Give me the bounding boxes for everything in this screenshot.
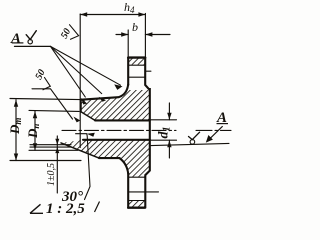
- weld symbol right: circle + check: [190, 140, 195, 145]
- short line near centerline (weld root): [76, 133, 87, 135]
- right extension for h4/b: [144, 14, 146, 58]
- svg-text:1 : 2,5: 1 : 2,5: [46, 201, 85, 217]
- b dimension line with outside arrows: [116, 34, 128, 36]
- flange ring outline: [128, 56, 145, 58]
- bore bottom edge: [83, 139, 150, 141]
- bore top edge: [95, 119, 150, 121]
- hatch upper hub+ring region: [81, 85, 150, 121]
- weld bevel upper: [81, 112, 95, 121]
- left Dm extensions: [10, 99, 81, 100]
- right A section arrow: [208, 127, 223, 142]
- bolt hole lines bottom: [128, 176, 145, 178]
- d1 extensions: [151, 119, 177, 121]
- svg-text:A: A: [10, 31, 21, 47]
- lower fillet to ring: [120, 158, 129, 173]
- Dn extensions: [29, 110, 79, 111]
- Dm dimension line: [15, 100, 17, 161]
- centerline: [62, 129, 176, 131]
- fan leader 2: [51, 46, 102, 93]
- GOST-style sectional drawing: weld-neck flange joint to pipe: [0, 0, 232, 220]
- fan leader 1 to fillet: [51, 46, 121, 85]
- hatch lower hub+ring region: [61, 140, 150, 177]
- 30 deg leader: [85, 134, 91, 200]
- top-left A section shelf: [15, 45, 51, 47]
- fan leader 3: [51, 46, 86, 97]
- svg-text:b: b: [132, 20, 138, 34]
- d1 dimension line: [168, 103, 170, 120]
- svg-text:1±0,5: 1±0,5: [46, 163, 57, 186]
- 1±0,5 extension pair: [30, 144, 71, 146]
- upper 50 deg angle mark: [70, 25, 79, 40]
- hub bottom edge: [99, 157, 120, 159]
- bolt hole lines top: [128, 64, 145, 66]
- lower 50 deg angle mark + shelf + leader: [43, 78, 50, 90]
- taper label leader slash: [95, 202, 100, 213]
- right side weld shelf / extension: [151, 143, 229, 145]
- hatch ring top band: [129, 58, 145, 64]
- pipe top edge and hub taper: [81, 85, 128, 100]
- weld symbol top-left: circle + check: [28, 40, 32, 44]
- label taper 1:2,5: [30, 204, 43, 213]
- h4 dimension line: [80, 14, 145, 16]
- h4 extension line through part: [79, 14, 81, 148]
- 1±0,5 dimension line: [56, 136, 58, 193]
- bolt hole axis tick: [145, 70, 151, 72]
- hatch ring bottom band: [129, 201, 145, 208]
- left extension for b: [127, 30, 129, 58]
- internal taper 1:2.5 lower: [61, 143, 99, 158]
- pipe end face upper: [80, 100, 82, 112]
- Dn dimension line: [34, 111, 36, 150]
